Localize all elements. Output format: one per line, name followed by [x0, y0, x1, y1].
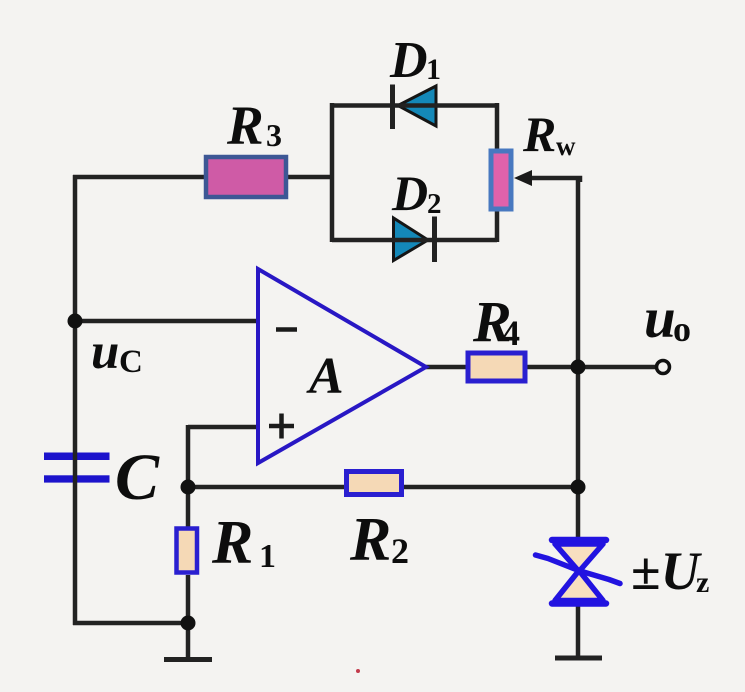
- label R1: [211, 509, 276, 577]
- svg-text:D: D: [391, 165, 428, 221]
- wire: zener bottom stub: [576, 606, 581, 658]
- label D1: [389, 32, 441, 89]
- label Rw: [522, 106, 576, 162]
- node: R2 / zener junction: [571, 480, 586, 495]
- label D2: [391, 165, 442, 221]
- wire: top-left horizontal from left rail to R3: [73, 175, 205, 180]
- zener pair ±Uz: [536, 540, 621, 604]
- svg-text:u: u: [644, 287, 676, 350]
- wire: right vertical rail (wiper down to zener): [576, 178, 581, 540]
- svg-text:1: 1: [426, 53, 441, 86]
- wire: R4 to output node: [526, 365, 578, 370]
- capacitor C: [44, 453, 110, 483]
- resistor R3: [206, 157, 286, 197]
- svg-text:A: A: [306, 348, 344, 405]
- wire: non-inverting input vertical: [186, 425, 191, 487]
- diode D1: [393, 85, 437, 130]
- wire: diode box left vertical: [330, 103, 335, 242]
- wire: output node to terminal: [578, 365, 658, 370]
- wire: ground stub bottom-left: [186, 623, 191, 659]
- label R3: [226, 95, 282, 156]
- svg-text:R: R: [211, 509, 253, 577]
- wire: non-inverting input horizontal: [188, 425, 258, 430]
- label ±Uz: [631, 541, 709, 601]
- op-amp plus sign: [269, 414, 294, 439]
- resistor R1: [177, 529, 198, 573]
- node: feedback junction (R1/R2/non-inverting): [181, 480, 196, 495]
- svg-text:C: C: [115, 441, 160, 514]
- wire: bottom rail: [73, 621, 188, 626]
- node: output junction: [571, 360, 586, 375]
- svg-text:R: R: [226, 95, 264, 156]
- wire: D2 branch (box left to box right, through diode): [332, 238, 497, 243]
- wire: R1 top stub: [186, 487, 191, 529]
- wire: inverting input from uC node: [75, 319, 258, 324]
- svg-text:D: D: [389, 32, 428, 89]
- diode D2: [394, 217, 435, 263]
- label uo: [644, 287, 691, 350]
- resistor R2: [347, 472, 402, 495]
- op-amp A: [258, 269, 426, 463]
- node: uC / inverting input: [68, 314, 83, 329]
- wire: Rw wiper to right rail: [530, 178, 580, 182]
- svg-text:4: 4: [502, 313, 520, 353]
- ground (bottom-left): [164, 657, 212, 662]
- potentiometer Rw: [491, 151, 532, 209]
- wire: feedback node to R2: [188, 485, 346, 490]
- wire: R3 right to diode box: [288, 175, 334, 180]
- ground (bottom-right): [555, 656, 602, 661]
- svg-text:±U: ±U: [631, 541, 703, 601]
- svg-text:u: u: [91, 324, 119, 380]
- svg-text:z: z: [696, 566, 709, 599]
- label R2: [349, 506, 409, 574]
- wire: R2 to right rail: [402, 485, 578, 490]
- svg-text:R: R: [349, 506, 391, 574]
- label uC: [91, 324, 143, 380]
- output terminal uo: [657, 361, 670, 374]
- svg-text:R: R: [522, 106, 556, 162]
- svg-text:o: o: [673, 309, 691, 349]
- wire: R1 bottom stub: [186, 575, 191, 623]
- wire: left vertical rail (corner to bottom rail, through capacitor): [73, 175, 78, 625]
- wire: diode box right vertical (through Rw): [495, 103, 500, 242]
- svg-text:C: C: [119, 344, 143, 380]
- wire: D1 branch (box left to box right, through diode): [332, 103, 497, 108]
- svg-text:1: 1: [259, 538, 276, 575]
- op-amp minus sign: [276, 327, 297, 332]
- wire: op-amp output to R4: [426, 365, 467, 370]
- svg-text:2: 2: [391, 531, 409, 571]
- svg-text:3: 3: [266, 117, 282, 153]
- label R4: [472, 289, 520, 354]
- svg-text:w: w: [556, 131, 576, 161]
- svg-text:2: 2: [427, 188, 442, 220]
- node: bottom-left ground junction: [181, 616, 196, 631]
- resistor R4: [468, 353, 525, 381]
